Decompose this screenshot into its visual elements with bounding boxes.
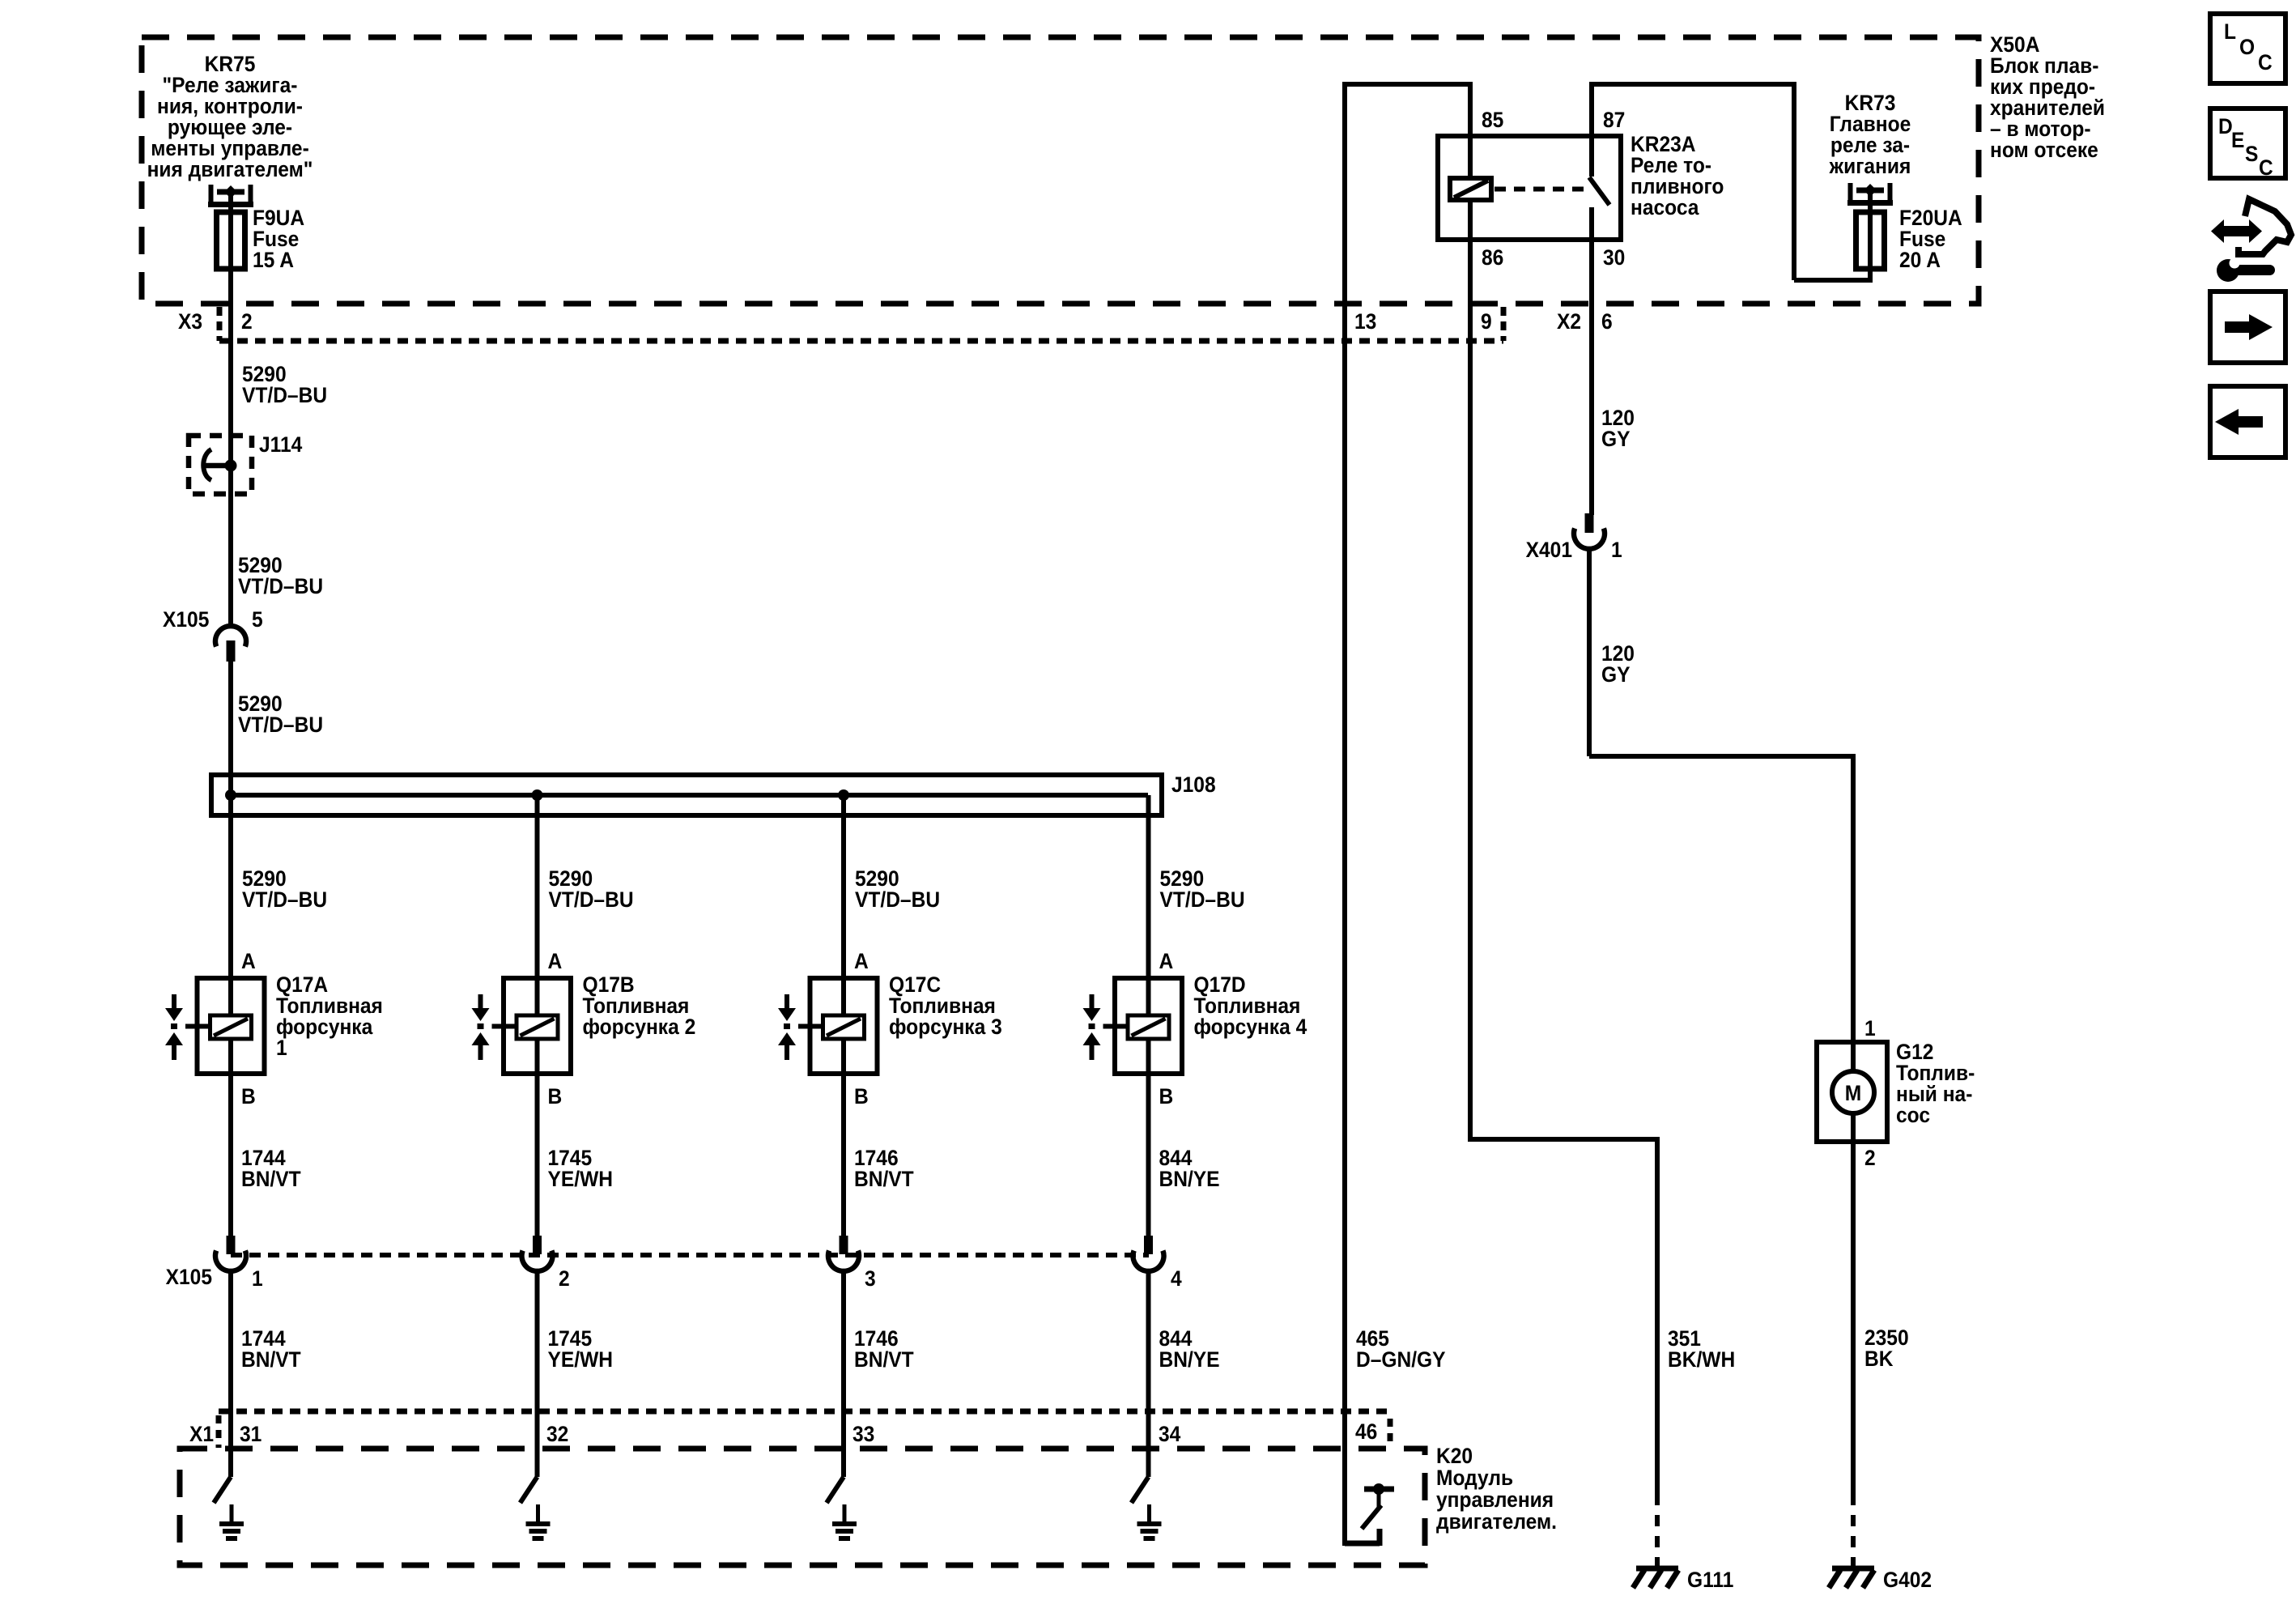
svg-text:J108: J108 <box>1171 773 1216 797</box>
connector X401 pin <box>1585 513 1594 533</box>
wire relay pin 85 riser <box>1468 82 1473 181</box>
connector line X1 dotted <box>219 1409 1389 1415</box>
svg-text:13: 13 <box>1354 310 1376 334</box>
connector X105 pin 5 pin <box>227 640 236 662</box>
icon forward arrow <box>2225 321 2251 333</box>
K20 internal ground 2 <box>536 1504 540 1524</box>
svg-text:X105: X105 <box>163 608 209 632</box>
wire 351 to ground solid <box>1655 1137 1660 1494</box>
wire pin 86 to 351 jog <box>1468 1137 1657 1142</box>
splice J114 dashed box <box>189 436 252 494</box>
K20 internal ground 4 <box>1147 1504 1151 1524</box>
splice pack J108 box <box>211 775 1162 815</box>
connector X105 dashed line <box>231 1253 1149 1257</box>
svg-text:6: 6 <box>1601 310 1613 334</box>
svg-text:B: B <box>854 1085 869 1108</box>
wire top link pin85 to pin13 <box>1342 82 1470 87</box>
svg-text:1: 1 <box>1864 1017 1876 1040</box>
K20 driver switch 1 <box>214 1477 231 1503</box>
svg-text:X401: X401 <box>1526 538 1572 562</box>
wire KR73 vertical <box>1792 82 1796 280</box>
splice J114 tap <box>203 463 231 469</box>
svg-text:31: 31 <box>240 1423 261 1446</box>
splice J114 node dot <box>225 460 237 472</box>
svg-text:120GY: 120GY <box>1601 406 1635 451</box>
svg-text:B: B <box>241 1085 256 1108</box>
connector X105 pin 2 <box>533 1236 542 1254</box>
fuse block X50A dashed outline <box>142 37 1979 304</box>
wire X401 to fuel pump horizontal <box>1589 754 1853 759</box>
fuel pump G12 motor circle <box>1832 1071 1874 1113</box>
wire injector 1 pin B down <box>228 1074 233 1236</box>
K20 pin46 node <box>1377 1494 1381 1508</box>
svg-text:33: 33 <box>852 1423 874 1446</box>
fuel injector Q17B symbol <box>535 795 540 1074</box>
svg-text:46: 46 <box>1355 1420 1377 1444</box>
fuel injector Q17D symbol <box>1146 795 1151 1074</box>
icon back arrow box <box>2210 386 2285 457</box>
relay KR23A box <box>1438 136 1621 240</box>
svg-text:34: 34 <box>1159 1423 1181 1446</box>
wire top link pin87 to KR73 <box>1592 82 1794 87</box>
relay KR23A actuation dashed link <box>1495 187 1585 192</box>
wire relay pin 87 riser <box>1589 82 1594 177</box>
svg-text:B: B <box>548 1085 563 1108</box>
wire relay pin 86 down <box>1468 199 1473 1139</box>
icon DESC box <box>2210 109 2285 178</box>
fuel injector Q17A symbol <box>228 795 233 1074</box>
wire X105:5 to splice pack J108 <box>228 660 233 795</box>
svg-text:X1: X1 <box>189 1423 214 1446</box>
icon forward arrow box <box>2210 291 2285 363</box>
wire X105 pin 2 to X1 <box>535 1270 540 1477</box>
svg-text:3: 3 <box>865 1267 876 1291</box>
connector X401 socket <box>1574 529 1605 549</box>
wire 351 to ground dashed <box>1655 1494 1660 1566</box>
svg-text:L: L <box>2224 20 2236 44</box>
K20 internal ground 3 <box>843 1504 847 1524</box>
K20 driver switch 3 <box>827 1477 844 1503</box>
svg-text:O: O <box>2239 36 2255 59</box>
svg-text:C: C <box>2258 51 2273 74</box>
K20 driver switch 2 <box>521 1477 538 1503</box>
K20 driver switch 4 <box>1132 1477 1149 1503</box>
svg-text:S: S <box>2245 143 2258 166</box>
connector stub X1 pin46 <box>1388 1419 1393 1444</box>
wire X401 down <box>1587 548 1592 756</box>
svg-text:86: 86 <box>1482 246 1503 270</box>
fuel pump G12 box <box>1817 1042 1887 1142</box>
connector X105 pin 1 <box>227 1236 236 1254</box>
ground G111 <box>1636 1566 1678 1572</box>
node dot J108 injector2 <box>532 789 543 801</box>
svg-text:A: A <box>854 950 869 973</box>
svg-text:B: B <box>1159 1085 1174 1108</box>
svg-text:2: 2 <box>1864 1147 1876 1170</box>
svg-text:4: 4 <box>1171 1267 1182 1291</box>
connector line X3/X2 dotted <box>219 338 1503 344</box>
connector stub X1 <box>216 1415 222 1448</box>
svg-text:9: 9 <box>1481 310 1492 334</box>
svg-text:E: E <box>2231 129 2244 152</box>
node dot J108 injector1 <box>225 789 236 801</box>
svg-text:85: 85 <box>1482 109 1503 132</box>
connector X105 pin 5 socket <box>215 626 246 646</box>
wire 2350 to ground dashed <box>1851 1494 1856 1566</box>
svg-text:2: 2 <box>559 1267 570 1291</box>
svg-text:X3: X3 <box>178 310 202 334</box>
svg-text:M: M <box>1845 1082 1861 1105</box>
wire injector 4 pin B down <box>1146 1074 1151 1236</box>
svg-text:A: A <box>241 950 256 973</box>
svg-text:D: D <box>2218 115 2233 138</box>
wire 2350 to ground solid <box>1851 1142 1856 1494</box>
svg-text:120GY: 120GY <box>1601 642 1635 687</box>
wire 120 GY upper <box>1589 513 1594 517</box>
connector stub X3 <box>217 307 223 341</box>
wire relay pin 30 down <box>1589 207 1594 515</box>
svg-text:A: A <box>548 950 563 973</box>
svg-text:2: 2 <box>241 310 253 334</box>
connector X105 pin 3 <box>840 1236 848 1254</box>
relay KR23A coil <box>1450 178 1491 200</box>
K20 pin46 fixed contact <box>1345 1541 1380 1547</box>
connector X105 pin 4 <box>1144 1236 1153 1254</box>
svg-text:C: C <box>2259 156 2273 180</box>
svg-text:G402: G402 <box>1883 1568 1932 1592</box>
icon LOC box <box>2210 14 2285 83</box>
module K20 dashed box <box>180 1449 1425 1565</box>
svg-text:1: 1 <box>1611 538 1622 562</box>
wire fuse F20UA stub <box>1868 192 1873 283</box>
wire 13/465 vertical <box>1342 82 1347 1546</box>
svg-text:G111: G111 <box>1687 1568 1733 1592</box>
icon back arrow <box>2237 416 2263 428</box>
fuse F20UA <box>1848 183 1853 203</box>
ground G402 <box>1832 1566 1874 1572</box>
svg-text:X105: X105 <box>166 1266 212 1289</box>
icon wrench/diagnostic <box>2222 226 2251 236</box>
fuel injector Q17C symbol <box>841 795 846 1074</box>
wire from fuse F9UA down to X3 pin 2 <box>228 192 233 341</box>
K20 internal ground 1 <box>230 1504 234 1524</box>
wire X105 pin 4 to X1 <box>1146 1270 1151 1477</box>
wire KR73 to fuse F20UA <box>1794 278 1870 283</box>
wire X105 pin 1 to X1 <box>228 1270 233 1477</box>
connector stub X2 pin9 <box>1501 307 1507 341</box>
fuse F9UA <box>209 185 214 205</box>
svg-text:5: 5 <box>252 608 263 632</box>
K20 pin46 switch arm <box>1362 1505 1381 1529</box>
svg-text:32: 32 <box>546 1423 568 1446</box>
wire X3:2 to J114 <box>228 341 233 628</box>
svg-text:1: 1 <box>252 1267 263 1291</box>
svg-text:X2: X2 <box>1557 310 1581 334</box>
wire X105 pin 3 to X1 <box>841 1270 846 1477</box>
svg-text:A: A <box>1159 950 1174 973</box>
wire injector 3 pin B down <box>841 1074 846 1236</box>
node dot J108 injector3 <box>838 789 849 801</box>
splice J114 hook <box>203 449 211 480</box>
svg-text:30: 30 <box>1603 246 1625 270</box>
svg-text:J114: J114 <box>259 433 303 457</box>
splice pack J108 bus wire <box>231 793 1148 798</box>
relay KR23A switch contact <box>1589 177 1609 205</box>
wire fuel pump riser <box>1851 754 1856 1142</box>
svg-text:87: 87 <box>1603 109 1625 132</box>
wire injector 2 pin B down <box>535 1074 540 1236</box>
